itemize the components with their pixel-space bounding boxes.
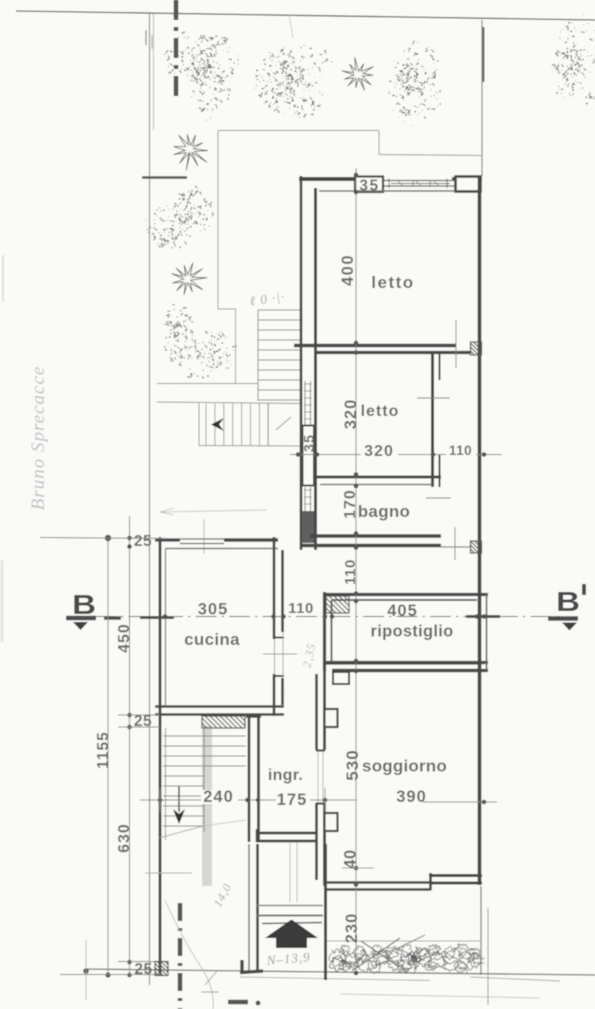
svg-text:390: 390 [396, 788, 427, 806]
svg-text:letto: letto [361, 403, 400, 420]
svg-text:1155: 1155 [95, 731, 112, 769]
svg-text:25: 25 [134, 533, 152, 550]
svg-text:ingr.: ingr. [268, 767, 303, 784]
svg-text:35: 35 [359, 178, 379, 195]
svg-text:25: 25 [134, 961, 152, 978]
svg-text:Bruno Sprecacce: Bruno Sprecacce [28, 366, 49, 511]
svg-text:450: 450 [116, 623, 133, 653]
svg-text:B: B [72, 589, 96, 620]
svg-text:cucina: cucina [184, 630, 240, 649]
svg-text:ripostiglio: ripostiglio [370, 623, 453, 641]
svg-text:110: 110 [288, 600, 314, 617]
svg-text:110: 110 [342, 559, 359, 585]
svg-text:175: 175 [277, 791, 308, 809]
svg-text:400: 400 [339, 254, 357, 286]
svg-text:530: 530 [343, 749, 362, 780]
svg-text:25: 25 [134, 713, 152, 730]
svg-text:405: 405 [387, 602, 418, 620]
svg-text:240: 240 [203, 788, 234, 806]
svg-text:170: 170 [342, 489, 359, 519]
svg-text:soggiorno: soggiorno [362, 757, 447, 776]
svg-text:320: 320 [342, 399, 360, 430]
svg-text:letto: letto [371, 273, 414, 292]
svg-text:320: 320 [364, 443, 394, 460]
svg-text:B: B [556, 586, 580, 617]
svg-text:35: 35 [302, 434, 318, 452]
svg-text:110: 110 [449, 443, 472, 458]
svg-text:bagno: bagno [358, 502, 411, 521]
svg-text:230: 230 [343, 913, 361, 944]
svg-text:305: 305 [198, 601, 229, 619]
svg-text:630: 630 [116, 823, 133, 853]
svg-text:40: 40 [342, 849, 360, 868]
